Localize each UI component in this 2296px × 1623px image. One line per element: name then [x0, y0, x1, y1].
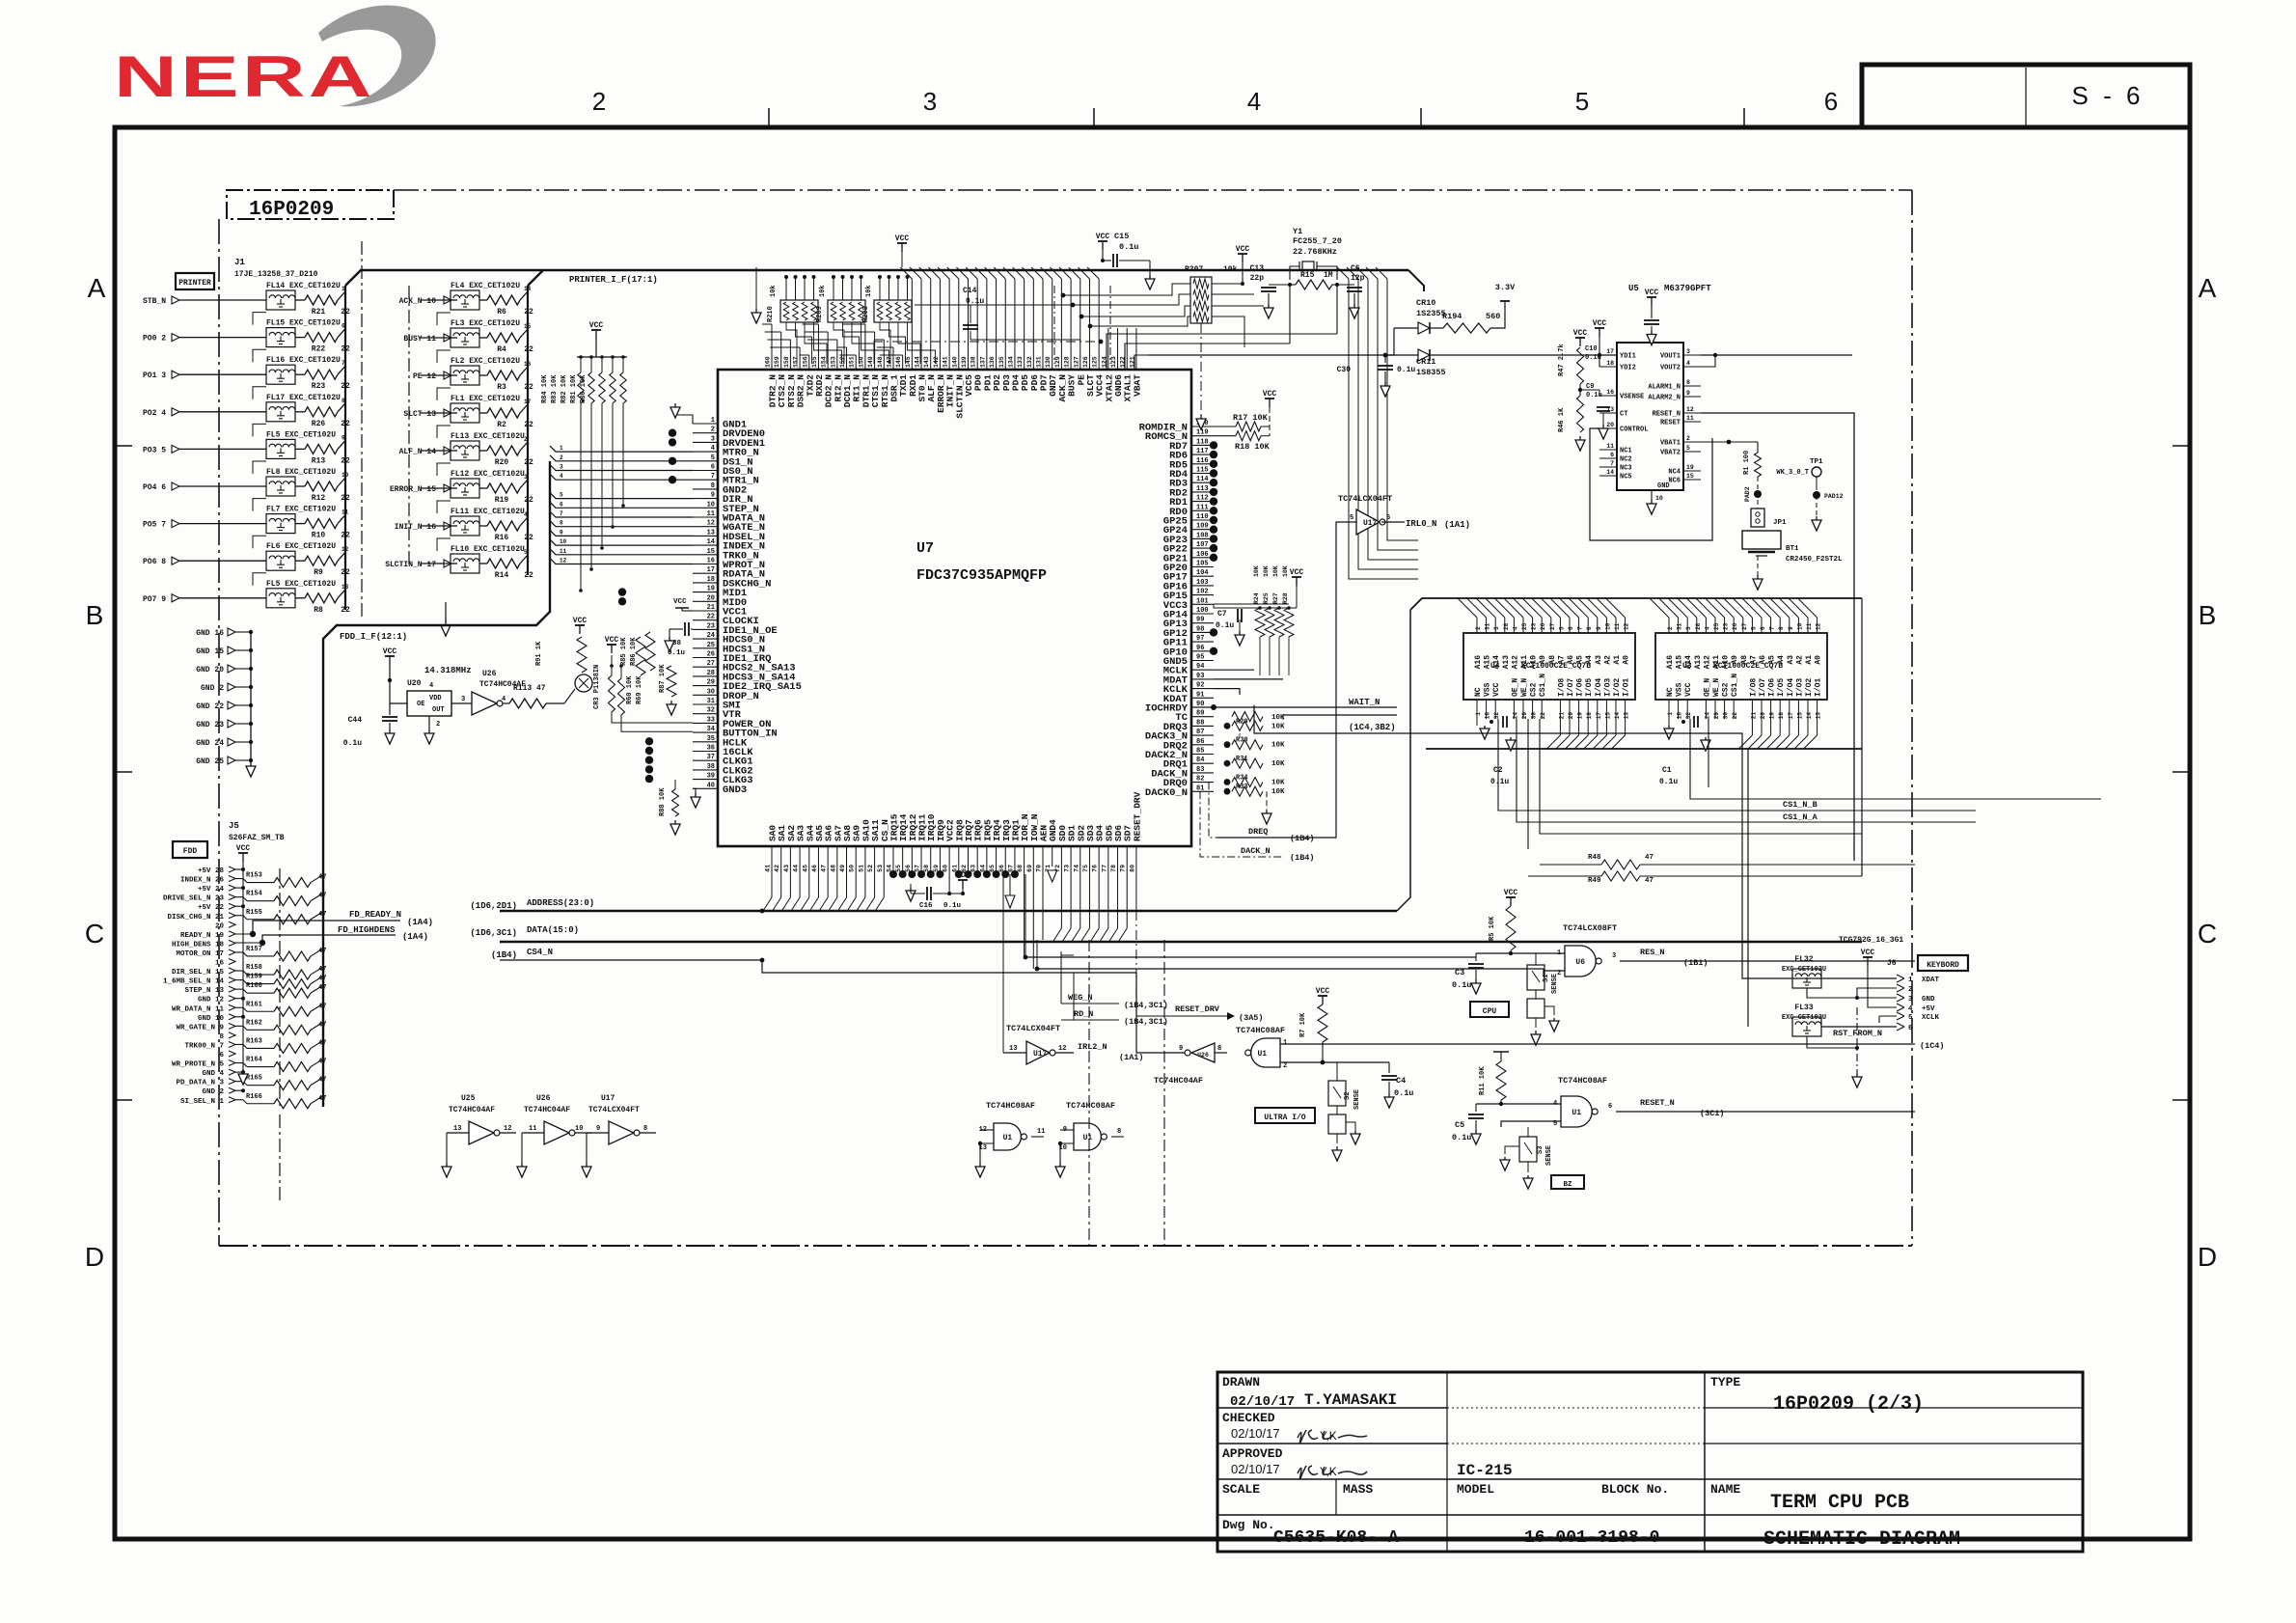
svg-text:MOTOR_ON 17: MOTOR_ON 17: [176, 950, 224, 958]
svg-text:141: 141: [943, 356, 949, 368]
svg-text:16: 16: [1606, 389, 1614, 396]
svg-text:17: 17: [1596, 712, 1602, 720]
svg-text:R24: R24: [1253, 592, 1260, 604]
svg-text:SCALE: SCALE: [1222, 1482, 1260, 1497]
svg-text:138: 138: [970, 356, 977, 368]
svg-text:(1B4,3C1): (1B4,3C1): [1124, 1001, 1168, 1010]
svg-text:15: 15: [1686, 473, 1694, 480]
svg-text:(1C4): (1C4): [1920, 1041, 1945, 1051]
svg-text:A5: A5: [1576, 655, 1585, 665]
svg-text:0.1u: 0.1u: [1490, 778, 1509, 786]
svg-text:99: 99: [1196, 617, 1204, 624]
svg-text:GND 25: GND 25: [196, 757, 224, 766]
svg-text:82: 82: [1196, 776, 1204, 784]
svg-text:109: 109: [1196, 523, 1209, 531]
svg-text:48: 48: [830, 865, 836, 872]
svg-text:BZ: BZ: [1563, 1181, 1572, 1189]
svg-text:87: 87: [1196, 729, 1204, 736]
U7 pin 116 RD5: [1191, 463, 1214, 465]
resistor R22 22: [305, 333, 338, 343]
svg-text:ALARM1_N: ALARM1_N: [1648, 384, 1681, 392]
svg-text:26: 26: [707, 651, 715, 659]
svg-text:I/O7: I/O7: [1759, 678, 1767, 697]
row tick marks borders: [115, 445, 132, 447]
wire to printer bus: [338, 478, 345, 486]
svg-text:156: 156: [802, 356, 808, 368]
svg-text:R113 47: R113 47: [513, 684, 546, 693]
svg-text:103: 103: [1196, 579, 1209, 587]
U7 pin 29 IDE2_IRQ_SA15: [693, 685, 718, 687]
bus bundle right of U7 descending: [1337, 267, 1349, 279]
svg-text:12: 12: [1686, 406, 1694, 413]
svg-text:143: 143: [923, 356, 930, 368]
U7 pin 117 RD6: [1191, 454, 1214, 455]
svg-text:40: 40: [707, 782, 715, 789]
16P0209 dashed boundary frame: [394, 189, 1912, 191]
svg-text:JP1: JP1: [1773, 519, 1787, 527]
svg-text:DRIVE_SEL_N 23: DRIVE_SEL_N 23: [163, 895, 225, 903]
svg-text:15: 15: [707, 548, 715, 556]
svg-text:I/O8: I/O8: [1749, 678, 1758, 697]
svg-text:R161: R161: [246, 1001, 262, 1008]
svg-text:OE: OE: [417, 701, 424, 708]
svg-text:R18 10K: R18 10K: [1235, 442, 1271, 452]
svg-text:32: 32: [707, 707, 715, 715]
svg-text:R3: R3: [497, 383, 506, 392]
resistor R13 22: [305, 444, 338, 454]
svg-text:C14: C14: [963, 287, 977, 295]
svg-text:1: 1: [1667, 712, 1674, 716]
svg-text:84: 84: [1196, 756, 1204, 764]
svg-text:9: 9: [711, 492, 715, 500]
svg-text:VCC: VCC: [1573, 329, 1588, 338]
svg-text:11: 11: [529, 1125, 536, 1133]
svg-text:CHECKED: CHECKED: [1222, 1411, 1275, 1425]
filter gnd link wire: [253, 499, 266, 511]
svg-text:10: 10: [1796, 622, 1803, 630]
svg-text:I/O1: I/O1: [1815, 678, 1823, 697]
svg-text:47: 47: [821, 865, 828, 872]
svg-text:0.1u: 0.1u: [943, 902, 961, 910]
U4 support parts: [1476, 719, 1478, 726]
svg-text:104: 104: [1196, 569, 1209, 577]
svg-text:22p: 22p: [1250, 274, 1265, 283]
svg-text:6: 6: [219, 1052, 224, 1059]
svg-text:10K: 10K: [1271, 742, 1285, 750]
svg-text:A9: A9: [1731, 655, 1739, 665]
svg-text:(1D6,3C1): (1D6,3C1): [470, 928, 517, 938]
svg-text:INIT_N 16: INIT_N 16: [395, 523, 436, 532]
svg-text:NERA: NERA: [114, 44, 375, 109]
svg-text:DRAWN: DRAWN: [1222, 1375, 1260, 1389]
svg-text:11: 11: [1806, 622, 1813, 630]
resistor R4 22: [487, 333, 520, 343]
U7 pin 83 DACK_N: [1191, 772, 1214, 774]
svg-text:A0: A0: [1815, 655, 1823, 665]
U7 pin 34 BUTTON_IN: [693, 731, 718, 733]
svg-text:(1B1): (1B1): [1683, 958, 1708, 968]
svg-text:FL17 EXC_CET102U: FL17 EXC_CET102U: [266, 394, 341, 402]
svg-text:SLCTIN_N 17: SLCTIN_N 17: [385, 561, 436, 569]
filter gnd link wire: [253, 573, 266, 586]
U7 pin 5 DS1_N: [693, 460, 718, 462]
svg-text:FD_HIGHDENS: FD_HIGHDENS: [338, 925, 396, 935]
svg-text:122: 122: [1120, 356, 1127, 368]
svg-text:FDC37C935APMQFP: FDC37C935APMQFP: [916, 567, 1047, 584]
filter gnd link wire col2: [437, 313, 451, 325]
svg-text:47: 47: [1645, 877, 1654, 885]
sheet main border frame: [115, 127, 2190, 1539]
svg-text:14: 14: [1806, 712, 1813, 720]
svg-text:FL14 EXC_CET102U: FL14 EXC_CET102U: [266, 282, 341, 290]
wire to fdd bus: [311, 1022, 323, 1030]
U7 pin 104 GP17: [1191, 575, 1214, 577]
svg-text:113: 113: [1196, 485, 1209, 493]
svg-text:CS4_N: CS4_N: [527, 948, 553, 957]
svg-text:158: 158: [783, 356, 790, 368]
svg-text:149: 149: [867, 356, 874, 368]
svg-text:20: 20: [1606, 422, 1614, 428]
svg-text:DISK_CHG_N 21: DISK_CHG_N 21: [167, 914, 224, 922]
svg-text:R7 10K: R7 10K: [1299, 1012, 1307, 1037]
wire to fdd bus: [311, 912, 323, 920]
svg-text:TCG792G_16_3G1: TCG792G_16_3G1: [1839, 936, 1903, 945]
column tick marks top border: [768, 108, 770, 125]
svg-text:41: 41: [765, 865, 772, 872]
fdd bus member 6: [550, 502, 693, 508]
svg-text:147: 147: [886, 356, 892, 368]
svg-text:ULTRA I/O: ULTRA I/O: [1264, 1114, 1305, 1122]
resistor R14 22: [487, 559, 520, 568]
svg-text:C13: C13: [1250, 264, 1265, 273]
svg-text:R153: R153: [246, 872, 262, 880]
BZ box: [1551, 1175, 1584, 1189]
approved signature: [1298, 1466, 1367, 1479]
svg-text:R85 10K: R85 10K: [620, 637, 628, 666]
svg-text:EXC_CET102U: EXC_CET102U: [1782, 1014, 1826, 1022]
svg-text:CPU: CPU: [1483, 1007, 1497, 1016]
svg-text:U6: U6: [1575, 958, 1585, 967]
U7 pin 35 HCLK: [693, 741, 718, 743]
svg-text:20: 20: [1760, 712, 1766, 720]
svg-text:45: 45: [802, 865, 808, 872]
svg-text:105: 105: [1196, 561, 1209, 568]
svg-text:14: 14: [1614, 712, 1621, 720]
data bus below U7: [500, 941, 1862, 943]
svg-text:I/O6: I/O6: [1768, 678, 1777, 697]
svg-text:VCC: VCC: [673, 598, 687, 606]
svg-text:20: 20: [1568, 712, 1574, 720]
svg-text:5: 5: [1750, 626, 1757, 630]
svg-text:CONTROL: CONTROL: [1620, 426, 1648, 434]
svg-text:28: 28: [1695, 622, 1702, 630]
svg-text:14: 14: [707, 538, 715, 546]
VBAT pin wire: [1134, 355, 1148, 370]
svg-text:22: 22: [1732, 712, 1738, 720]
svg-text:9: 9: [1179, 1045, 1183, 1053]
U7 pin 2 DRVDEN0: [693, 432, 718, 434]
IRQ pin stubs with dots: [892, 846, 894, 874]
svg-text:VCC: VCC: [1684, 682, 1693, 697]
U1rb input wires: [1476, 1103, 1561, 1105]
svg-text:S - 6: S - 6: [2072, 81, 2145, 110]
svg-text:75: 75: [1082, 865, 1089, 872]
U7 pin 120 ROMDIR_N: [1191, 426, 1214, 427]
wire to fdd bus: [311, 985, 323, 993]
wire to printer bus: [338, 515, 345, 524]
svg-text:A7: A7: [1749, 655, 1758, 665]
svg-text:GND 4: GND 4: [202, 1070, 224, 1078]
U7 pin 7 MTR1_N: [693, 479, 718, 481]
svg-text:0.1u: 0.1u: [343, 739, 362, 748]
keyboard pin 2: [1897, 984, 1904, 992]
svg-text:13: 13: [1009, 1045, 1017, 1053]
svg-text:CS1_N_A: CS1_N_A: [1783, 812, 1818, 822]
NERA logo gray swoosh: [318, 5, 436, 106]
dash line J1 region: [361, 241, 363, 618]
svg-text:M6379GPFT: M6379GPFT: [1664, 284, 1711, 293]
svg-text:S2: S2: [1344, 1092, 1352, 1100]
svg-text:OE_N: OE_N: [1511, 678, 1519, 697]
svg-text:DACK_N: DACK_N: [1241, 846, 1271, 856]
svg-text:3.3V: 3.3V: [1495, 283, 1516, 292]
svg-text:18: 18: [1586, 712, 1593, 720]
U7 pin 40 GND3: [693, 787, 718, 789]
svg-text:APPROVED: APPROVED: [1222, 1446, 1283, 1461]
wire to printer bus col2: [520, 329, 528, 338]
WAIT_N wire IOCHRDY: [1191, 706, 1397, 708]
svg-text:PO3 5: PO3 5: [143, 446, 166, 454]
U7 pin 82 DRQ0: [1191, 782, 1214, 784]
svg-text:133: 133: [1017, 356, 1024, 368]
wire to printer bus: [338, 590, 345, 598]
svg-text:R1 100: R1 100: [1743, 451, 1751, 475]
svg-text:3: 3: [1612, 952, 1616, 960]
svg-text:5: 5: [1558, 626, 1565, 630]
svg-text:TC74HC08AF: TC74HC08AF: [1236, 1026, 1285, 1035]
U6 input wires: [1476, 952, 1565, 954]
svg-text:3: 3: [923, 87, 937, 116]
U7 pin 22 CLOCKI: [693, 619, 718, 621]
wire to fdd bus: [311, 875, 323, 883]
svg-text:7: 7: [560, 510, 563, 517]
svg-text:FL7 EXC_CET102U: FL7 EXC_CET102U: [266, 506, 336, 514]
svg-text:DREQ: DREQ: [1248, 827, 1268, 837]
svg-text:4: 4: [429, 682, 433, 690]
svg-text:FL3 EXC_CET102U: FL3 EXC_CET102U: [451, 319, 520, 328]
svg-text:20: 20: [215, 922, 225, 930]
svg-text:0.1u: 0.1u: [1216, 621, 1234, 630]
svg-text:80: 80: [1129, 865, 1135, 872]
svg-text:27: 27: [707, 660, 715, 668]
svg-text:3: 3: [1908, 996, 1913, 1004]
svg-text:R210: R210: [767, 306, 775, 322]
svg-text:R48: R48: [1588, 854, 1601, 862]
svg-text:U1: U1: [1572, 1109, 1581, 1117]
svg-text:6: 6: [1610, 452, 1614, 458]
svg-text:10K: 10K: [1282, 565, 1289, 577]
SA pin stubs to address bus: [771, 846, 773, 897]
fdd bus member 4: [550, 474, 693, 480]
svg-text:2: 2: [592, 87, 606, 116]
svg-text:8: 8: [711, 482, 715, 490]
svg-text:VCC: VCC: [1316, 987, 1330, 996]
svg-text:DACK0_N: DACK0_N: [1145, 787, 1188, 799]
svg-text:131: 131: [1036, 356, 1043, 368]
svg-text:S3: S3: [1537, 1146, 1544, 1154]
fdd bus member 1: [550, 446, 693, 452]
svg-text:TERM CPU PCB: TERM CPU PCB: [1770, 1492, 1909, 1514]
svg-text:FL13 EXC_CET102U: FL13 EXC_CET102U: [451, 432, 525, 441]
svg-text:91: 91: [1196, 691, 1204, 699]
U7 pin 33 POWER_ON: [693, 722, 718, 724]
svg-text:(1A1): (1A1): [1444, 520, 1470, 530]
svg-text:PAD2: PAD2: [1744, 486, 1751, 502]
resistor R31 10K: [1224, 760, 1231, 767]
U7 pin 98 GP12: [1191, 631, 1214, 633]
svg-text:9: 9: [1596, 626, 1602, 630]
svg-text:C10: C10: [1585, 345, 1598, 353]
svg-text:12: 12: [1058, 1045, 1066, 1053]
svg-text:+5V 28: +5V 28: [198, 867, 225, 875]
XTAL pin wires to crystal: [1107, 334, 1337, 370]
svg-text:VBAT: VBAT: [1132, 374, 1142, 397]
svg-text:PO0 2: PO0 2: [143, 335, 166, 344]
fdd bus member 7: [550, 511, 693, 517]
resistor R29 10K: [1224, 723, 1231, 729]
svg-text:GND 10: GND 10: [198, 1015, 225, 1023]
svg-text:47: 47: [1645, 854, 1654, 862]
svg-text:GND: GND: [1922, 996, 1935, 1004]
svg-text:U26: U26: [1197, 1052, 1209, 1059]
wire U1 pin1 long to right RST_FROM_N: [1280, 1043, 1915, 1045]
svg-text:7: 7: [711, 473, 715, 481]
gnd after R33: [1266, 791, 1268, 811]
svg-text:123: 123: [1110, 356, 1117, 368]
svg-text:0.1u: 0.1u: [1452, 980, 1471, 990]
svg-text:R46 1K: R46 1K: [1558, 407, 1566, 432]
svg-text:R60 10K: R60 10K: [626, 675, 634, 704]
wire to fdd bus: [311, 1059, 323, 1067]
U7 pin 110 GP25: [1191, 519, 1214, 521]
wire to printer bus: [338, 552, 345, 561]
svg-text:A9: A9: [1539, 655, 1547, 665]
sense switch S1: [1527, 965, 1544, 990]
svg-text:FDD_I_F(12:1): FDD_I_F(12:1): [340, 632, 407, 642]
svg-text:117: 117: [1196, 448, 1209, 455]
READY_N FD_READY_N wire: [235, 933, 253, 935]
svg-text:10: 10: [1604, 622, 1611, 630]
resistor R34 10K: [1224, 779, 1231, 785]
U7 pin 24 HDCS0_N: [693, 638, 718, 640]
pull-up bank wires down: [580, 403, 582, 591]
svg-text:A6: A6: [1759, 655, 1767, 665]
svg-text:A11: A11: [1712, 655, 1721, 670]
svg-text:118: 118: [1196, 438, 1209, 446]
U7 pin 12 WGATE_N: [693, 526, 718, 528]
svg-text:R159: R159: [246, 974, 262, 981]
U5 pin 3 VOUT1: [1683, 354, 1701, 356]
wire to printer bus: [338, 440, 345, 449]
svg-text:88: 88: [1196, 719, 1204, 727]
filter gnd link wire col2: [437, 501, 451, 513]
svg-text:TC74HC04AF: TC74HC04AF: [449, 1106, 495, 1114]
svg-text:9: 9: [1686, 390, 1690, 397]
svg-text:1_6MB_SEL_N 14: 1_6MB_SEL_N 14: [163, 978, 225, 986]
svg-text:BLOCK No.: BLOCK No.: [1601, 1482, 1669, 1497]
svg-text:42: 42: [774, 865, 780, 872]
svg-text:R14: R14: [495, 571, 509, 580]
svg-text:I/O7: I/O7: [1567, 678, 1575, 697]
svg-text:10K: 10K: [1263, 565, 1270, 577]
svg-text:32: 32: [1685, 712, 1692, 720]
svg-text:PAD12: PAD12: [1824, 493, 1844, 500]
svg-text:5: 5: [711, 454, 715, 462]
U5 VCC feed: [1599, 328, 1600, 337]
svg-text:140: 140: [951, 356, 958, 368]
svg-text:IRL0_N: IRL0_N: [1406, 519, 1436, 529]
svg-text:10: 10: [560, 538, 567, 545]
svg-text:R81 10K: R81 10K: [570, 374, 578, 403]
filter gnd link wire: [253, 424, 266, 436]
svg-text:24: 24: [707, 632, 715, 640]
J1 ground collector wire: [250, 632, 252, 760]
memory IC U4 KCT1600C2E_CQ7B body: [1463, 633, 1635, 700]
svg-text:15: 15: [1796, 712, 1803, 720]
keyboard pin 1 XDAT: [1897, 975, 1904, 982]
svg-text:31: 31: [1485, 622, 1491, 630]
svg-text:A8: A8: [1548, 655, 1557, 665]
svg-text:74: 74: [1073, 865, 1080, 872]
SD pin stubs to data bus: [1060, 846, 1062, 928]
U7 pin 31 SMI: [693, 703, 718, 705]
svg-text:114: 114: [1196, 476, 1209, 483]
svg-text:10k: 10k: [1223, 265, 1238, 274]
svg-text:21: 21: [1750, 712, 1757, 720]
U7 pin 107 GP22: [1191, 547, 1214, 549]
CONTROL loop wire: [1590, 428, 1712, 540]
fdd bus member 9: [550, 530, 693, 536]
svg-text:A7: A7: [1557, 655, 1566, 665]
VBAT1 wire to battery: [1701, 441, 1758, 443]
svg-text:WE_N: WE_N: [1712, 678, 1721, 697]
svg-text:(1D6,2D1): (1D6,2D1): [470, 901, 517, 911]
svg-text:22.768KHz: 22.768KHz: [1293, 247, 1337, 257]
U7 pin 28 HDCS3_N_SA14: [693, 675, 718, 677]
svg-text:VCC: VCC: [1504, 889, 1518, 897]
U7 pin 93 MDAT: [1191, 678, 1214, 680]
U5 pin 13 CT: [1599, 412, 1617, 414]
R207 side wires: [1063, 284, 1190, 295]
svg-text:11: 11: [1037, 1128, 1045, 1136]
FDD label box: [173, 841, 207, 858]
svg-text:101: 101: [1196, 597, 1209, 605]
AEN stub: [1042, 846, 1044, 940]
network bottom step wires: [786, 322, 797, 364]
svg-text:(3C1): (3C1): [1700, 1109, 1725, 1118]
fdd bus member 5: [550, 493, 693, 499]
svg-text:2: 2: [1667, 626, 1674, 630]
op-amp U7 FDC37C935APMQFP body: [718, 370, 1191, 846]
svg-text:60: 60: [943, 865, 949, 872]
svg-text:R29: R29: [1236, 718, 1248, 726]
svg-text:NC2: NC2: [1620, 456, 1632, 464]
svg-text:SENSE: SENSE: [1545, 1145, 1553, 1166]
svg-text:I/O2: I/O2: [1613, 678, 1622, 697]
svg-text:S26FAZ_SM_TB: S26FAZ_SM_TB: [229, 834, 285, 842]
svg-text:C16: C16: [919, 902, 933, 910]
svg-text:R23: R23: [312, 382, 326, 391]
